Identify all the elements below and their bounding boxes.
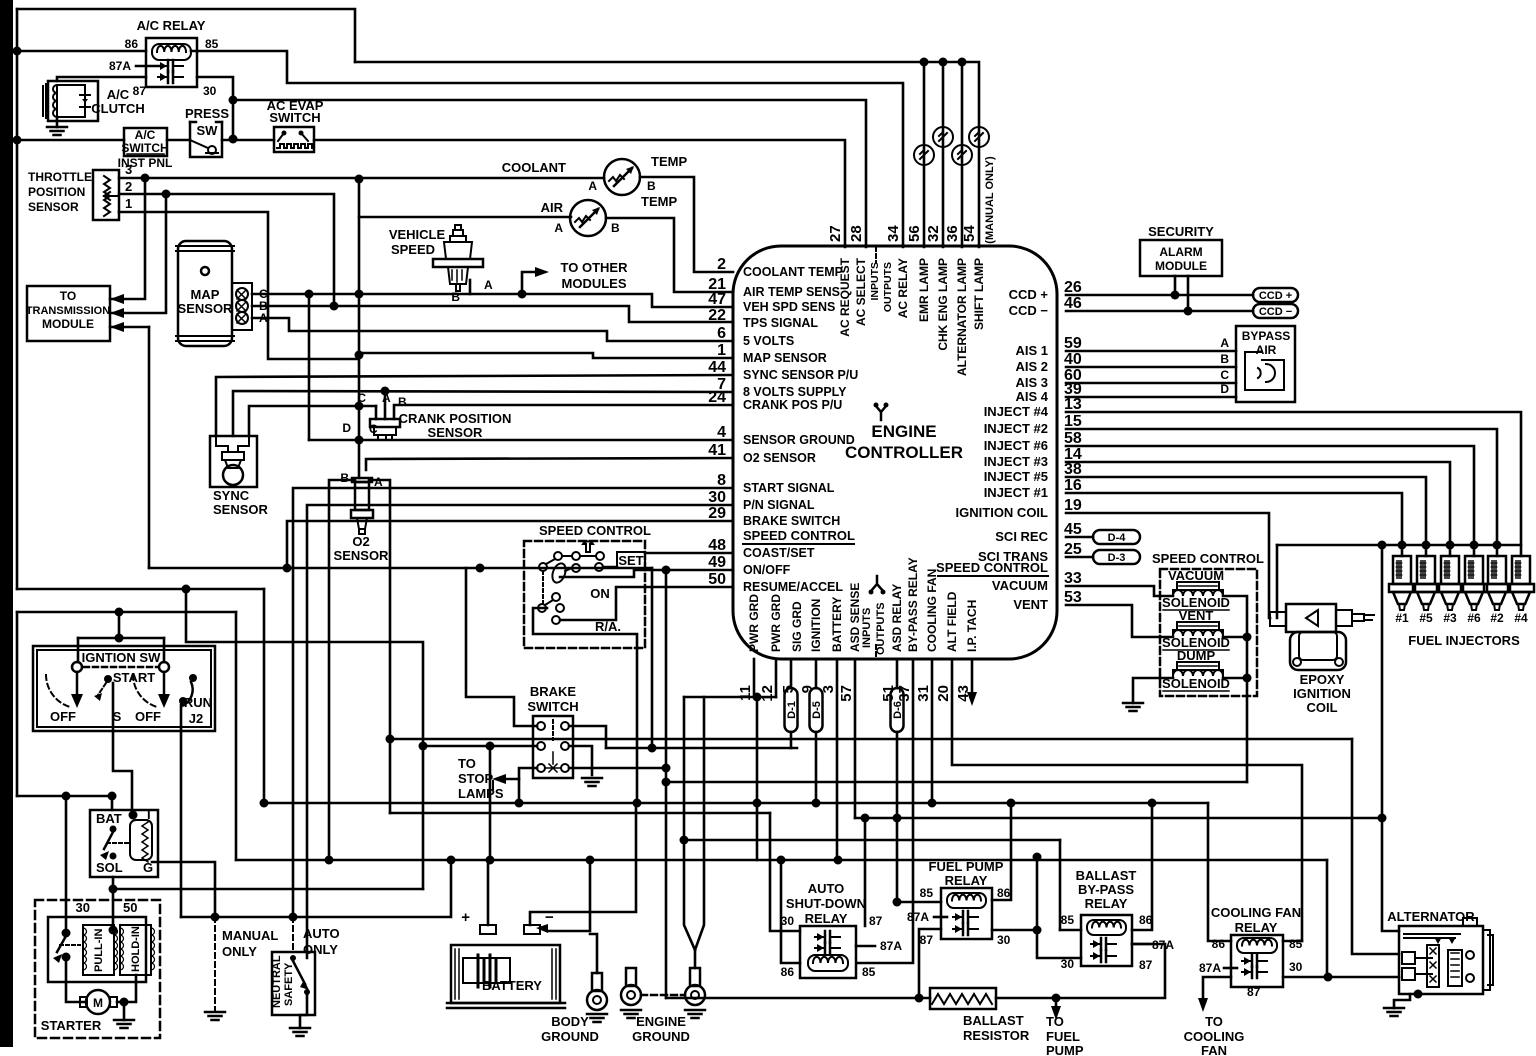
pill D-6 xyxy=(891,688,904,732)
wire o2-b xyxy=(329,480,355,860)
inputs/outputs divider top xyxy=(875,247,877,262)
arrowhead to fuel pump xyxy=(1051,1006,1061,1020)
wire ns-gnd xyxy=(300,995,307,1028)
wire sensor-trunk xyxy=(358,179,361,406)
svg-text:IGNITION COIL: IGNITION COIL xyxy=(956,505,1049,520)
wire pin33-vac xyxy=(1066,586,1173,596)
svg-text:#3: #3 xyxy=(1443,611,1457,625)
AC evap switch xyxy=(274,127,314,152)
wire pin3-wire xyxy=(836,659,839,860)
svg-text:SENSOR: SENSOR xyxy=(28,200,79,214)
svg-text:VACUUM: VACUUM xyxy=(992,578,1048,593)
svg-text:25: 25 xyxy=(1064,541,1082,558)
svg-text:IGNITION: IGNITION xyxy=(809,599,823,652)
svg-text:40: 40 xyxy=(1064,351,1082,368)
node j63 xyxy=(928,799,937,808)
node j16 xyxy=(1243,674,1252,683)
wire pin11 xyxy=(753,659,756,697)
wire rail-889 xyxy=(113,888,423,891)
svg-text:SIG GRD: SIG GRD xyxy=(790,601,804,652)
wire tm-arrow1 xyxy=(110,178,145,299)
wire cfan86-feed xyxy=(1208,803,1231,941)
svg-text:BALLAST: BALLAST xyxy=(1076,868,1137,883)
wire vss-down xyxy=(469,280,472,294)
node j43 xyxy=(1324,973,1333,982)
svg-text:87A: 87A xyxy=(109,59,131,73)
wire wire-32 xyxy=(942,62,945,247)
wire rail-803 xyxy=(264,802,1208,805)
solenoid vent xyxy=(1173,622,1223,636)
node j57 xyxy=(777,856,786,865)
wire vss-pin47 xyxy=(309,294,733,307)
svg-text:ALARM: ALARM xyxy=(1159,245,1202,259)
wire starter-sw-out xyxy=(66,957,86,1002)
arrowhead transmission 299 xyxy=(110,294,124,304)
node j67 xyxy=(305,290,314,299)
svg-text:ALT FIELD: ALT FIELD xyxy=(945,591,959,652)
svg-text:D-5: D-5 xyxy=(811,701,823,719)
svg-text:START SIGNAL: START SIGNAL xyxy=(743,481,835,495)
wire cf-87-wire xyxy=(1203,977,1231,1000)
svg-text:AIR: AIR xyxy=(541,200,564,215)
ground brake switch xyxy=(582,778,602,786)
wire dump-right xyxy=(1223,677,1247,680)
svg-text:+: + xyxy=(461,909,470,926)
node j48 xyxy=(260,799,269,808)
wire clutch-gnd xyxy=(56,117,59,127)
svg-text:RELAY: RELAY xyxy=(945,873,988,888)
wire brake-bl xyxy=(519,768,537,803)
svg-text:GROUND: GROUND xyxy=(632,1029,690,1044)
svg-text:VENT: VENT xyxy=(1013,597,1048,612)
wire o2-a xyxy=(369,480,390,813)
throttle position sensor xyxy=(93,170,119,220)
svg-text:INJECT #6: INJECT #6 xyxy=(984,438,1048,453)
svg-text:START: START xyxy=(113,670,155,685)
svg-text:SPEED: SPEED xyxy=(391,242,435,257)
svg-text:AUTO: AUTO xyxy=(303,926,340,941)
wire batt-minus-b xyxy=(548,860,590,931)
svg-text:D-1: D-1 xyxy=(786,701,798,719)
node j8 xyxy=(330,302,339,311)
svg-text:IGNITION: IGNITION xyxy=(1293,686,1351,701)
svg-text:THROTTLE: THROTTLE xyxy=(28,170,92,184)
wire ign-v1 xyxy=(77,638,80,662)
svg-text:FUEL INJECTORS: FUEL INJECTORS xyxy=(1408,633,1520,648)
wire air-pin21 xyxy=(606,218,733,292)
ballast resistor xyxy=(930,988,996,1009)
node j55 xyxy=(120,998,129,1007)
svg-text:12: 12 xyxy=(759,685,776,702)
wire stop-lamps xyxy=(504,778,519,781)
wire inj-15 xyxy=(1066,429,1497,556)
svg-text:SENSOR: SENSOR xyxy=(213,502,269,517)
wire crank-c xyxy=(375,406,378,419)
fuel injector #5 xyxy=(1413,556,1439,610)
node injbus-1474 xyxy=(1470,541,1479,550)
engine controller U1 xyxy=(733,246,1057,659)
node j70 xyxy=(355,351,364,360)
svg-text:A/C: A/C xyxy=(135,128,156,142)
wire coil-feed xyxy=(1276,545,1279,618)
svg-text:20: 20 xyxy=(935,685,952,702)
wire vent-right xyxy=(1223,636,1247,639)
wire pin45 xyxy=(1066,536,1093,539)
wire batt-minus-a xyxy=(530,803,636,925)
svg-text:MODULE: MODULE xyxy=(42,317,94,331)
svg-text:ENGINE: ENGINE xyxy=(636,1014,686,1029)
svg-text:B: B xyxy=(1220,352,1229,366)
svg-text:SYNC: SYNC xyxy=(213,488,250,503)
arrowhead pin 43 xyxy=(967,692,977,706)
svg-text:PWR GRD: PWR GRD xyxy=(769,594,783,652)
alternator xyxy=(1399,918,1493,994)
svg-text:BY-PASS RELAY: BY-PASS RELAY xyxy=(906,557,920,652)
wire rail-860 xyxy=(236,859,1327,862)
svg-text:CHK ENG LAMP: CHK ENG LAMP xyxy=(936,258,950,351)
wire seg-652 xyxy=(651,568,654,748)
wire ais-39 xyxy=(1066,396,1236,399)
fuel injector #3 xyxy=(1437,556,1463,610)
svg-text:85: 85 xyxy=(1289,937,1303,951)
svg-text:11: 11 xyxy=(737,685,754,701)
wire pin53-vent xyxy=(1066,605,1173,637)
node j42 xyxy=(325,856,334,865)
solenoid dump xyxy=(1173,662,1223,676)
wire brake-tl xyxy=(466,568,537,726)
node j49 xyxy=(109,885,118,894)
svg-text:BATTERY: BATTERY xyxy=(482,978,542,993)
ground dump solenoid xyxy=(1123,703,1143,711)
wire evap-to-27 xyxy=(314,140,845,247)
node injbus-1402 xyxy=(1398,541,1407,550)
crank position sensor xyxy=(370,419,400,439)
wire gnd-starter xyxy=(123,1002,126,1020)
svg-text:CCD +: CCD + xyxy=(1259,290,1292,302)
wire inj-14 xyxy=(1066,462,1450,556)
wire ac-87 xyxy=(57,77,146,81)
node j59 xyxy=(1033,853,1042,862)
svg-text:BAT: BAT xyxy=(96,811,122,826)
svg-text:30: 30 xyxy=(997,933,1011,947)
wire d6-wire xyxy=(896,659,899,688)
A/C switch box xyxy=(124,128,167,156)
svg-text:SHIFT LAMP: SHIFT LAMP xyxy=(972,258,986,330)
wire tm3-down xyxy=(148,327,151,568)
node injbus-1382 xyxy=(1378,541,1387,550)
svg-text:30: 30 xyxy=(203,84,217,98)
node j25 xyxy=(753,693,762,702)
svg-text:D-6: D-6 xyxy=(892,701,904,719)
wire pin57-wire xyxy=(854,659,857,818)
svg-text:28: 28 xyxy=(848,225,865,242)
svg-text:TO: TO xyxy=(1205,1014,1223,1029)
svg-text:AIS 1: AIS 1 xyxy=(1015,343,1048,358)
node j18 xyxy=(476,564,485,573)
svg-text:50: 50 xyxy=(123,900,137,915)
node j17 xyxy=(662,566,671,575)
svg-text:26: 26 xyxy=(1064,279,1082,296)
wire rail-748 xyxy=(606,747,797,750)
svg-text:#2: #2 xyxy=(1490,611,1504,625)
svg-text:SCI REC: SCI REC xyxy=(995,529,1048,544)
wire drop-264 xyxy=(263,589,266,803)
svg-text:OUTPUTS: OUTPUTS xyxy=(875,602,887,655)
wire pin25 xyxy=(1066,556,1093,559)
node j21 xyxy=(283,564,292,573)
svg-text:SOL: SOL xyxy=(96,860,123,875)
svg-text:SWITCH: SWITCH xyxy=(527,699,578,714)
ground neutral safety xyxy=(290,1028,310,1036)
node j65 xyxy=(486,742,495,751)
svg-text:SYNC SENSOR P/U: SYNC SENSOR P/U xyxy=(743,368,858,382)
wire rail-797 xyxy=(17,795,112,798)
ground clutch xyxy=(47,127,67,135)
svg-text:M: M xyxy=(93,996,103,1010)
wire sync-24a xyxy=(249,406,376,436)
wire body-gnd-wire xyxy=(590,934,597,973)
svg-text:A: A xyxy=(484,278,493,292)
wire press-out xyxy=(222,139,274,142)
svg-text:B: B xyxy=(451,290,460,304)
svg-text:RELAY: RELAY xyxy=(1085,896,1128,911)
wire asd-87A-stub xyxy=(856,945,875,948)
svg-text:COIL: COIL xyxy=(1306,700,1337,715)
node j10 xyxy=(381,387,390,396)
svg-text:ALTERNATOR LAMP: ALTERNATOR LAMP xyxy=(955,258,969,376)
svg-text:87: 87 xyxy=(869,914,883,928)
wire bb30-link xyxy=(1037,857,1081,958)
wire brake-ml xyxy=(423,745,537,748)
svg-text:RELAY: RELAY xyxy=(805,911,848,926)
svg-text:8: 8 xyxy=(717,472,726,489)
wire fp-30-wire xyxy=(992,929,1037,932)
fuel injector #4 xyxy=(1508,556,1534,610)
node j4 xyxy=(13,136,22,145)
wire ac-85-to-pin34 xyxy=(191,51,903,247)
svg-text:#6: #6 xyxy=(1467,611,1481,625)
node lamp3 xyxy=(958,58,967,67)
svg-text:33: 33 xyxy=(1064,570,1082,587)
node j31 xyxy=(515,799,524,808)
wire alt-b xyxy=(1352,739,1399,954)
box BYPASS AIR xyxy=(1236,326,1295,402)
svg-text:STOP: STOP xyxy=(458,771,493,786)
node j62 xyxy=(1414,990,1423,999)
wire set-wire xyxy=(603,566,617,569)
svg-text:CLUTCH: CLUTCH xyxy=(91,101,144,116)
wire ccd-minus xyxy=(1066,310,1253,313)
wire tps3-coolant xyxy=(119,177,604,180)
wire air-left xyxy=(359,216,571,219)
wire tm-arrow3 xyxy=(110,326,149,329)
pill D-5 xyxy=(810,688,823,732)
wire brake-mr xyxy=(569,746,592,775)
svg-text:SHUT-DOWN: SHUT-DOWN xyxy=(786,896,866,911)
svg-text:30: 30 xyxy=(708,489,726,506)
svg-text:TRANSMISSION: TRANSMISSION xyxy=(26,305,110,317)
svg-text:#5: #5 xyxy=(1419,611,1433,625)
svg-text:87: 87 xyxy=(1139,958,1153,972)
svg-text:SPEED CONTROL: SPEED CONTROL xyxy=(1152,551,1264,566)
svg-text:AIR: AIR xyxy=(1256,343,1277,357)
svg-text:O2: O2 xyxy=(352,534,369,549)
wire holdin-gnd xyxy=(124,975,136,1002)
wire coolant-pin2 xyxy=(640,177,733,272)
svg-text:86: 86 xyxy=(781,965,795,979)
wire tm-arrow2 xyxy=(110,194,166,313)
wire bb-85-wire xyxy=(1060,929,1081,932)
node j54 xyxy=(62,953,71,962)
wire rail-840 xyxy=(684,839,1060,842)
wire pin19-coil xyxy=(1066,513,1270,618)
svg-text:COOLING FAN: COOLING FAN xyxy=(925,569,939,652)
starter dashed box xyxy=(35,900,160,1038)
arrowhead to other modules xyxy=(535,267,549,277)
wire starter-motor-gnd xyxy=(117,1001,123,1004)
wire ballast-left xyxy=(666,997,930,1000)
svg-text:ENGINE: ENGINE xyxy=(871,422,936,441)
wire sol-drain xyxy=(1223,596,1247,782)
node j28 xyxy=(662,778,671,787)
wire lug-v2 xyxy=(695,697,704,950)
wire lug-stem xyxy=(694,950,697,968)
node j3 xyxy=(229,135,238,144)
svg-text:COAST/SET: COAST/SET xyxy=(743,546,815,560)
svg-text:85: 85 xyxy=(862,965,876,979)
wire d5-down xyxy=(815,732,818,803)
svg-text:OFF: OFF xyxy=(135,709,161,724)
svg-text:I: I xyxy=(147,807,151,822)
svg-text:A: A xyxy=(554,221,563,235)
wire frame-left xyxy=(16,9,19,589)
cooling fan relay xyxy=(1231,935,1283,987)
svg-text:15: 15 xyxy=(1064,413,1082,430)
neutral safety switch xyxy=(272,952,315,1015)
svg-text:FAN: FAN xyxy=(1201,1043,1227,1056)
node j50 xyxy=(115,634,124,643)
svg-text:GROUND: GROUND xyxy=(541,1029,599,1044)
svg-text:CRANK POS P/U: CRANK POS P/U xyxy=(743,398,842,412)
wire sc-common xyxy=(533,608,637,803)
svg-text:MAP: MAP xyxy=(191,287,220,302)
wire asd-86-wire xyxy=(781,860,800,963)
wire pin12 xyxy=(775,659,778,697)
svg-text:VACUUM: VACUUM xyxy=(1168,568,1224,583)
svg-text:INJECT #4: INJECT #4 xyxy=(984,404,1049,419)
node j19 xyxy=(662,764,671,773)
epoxy ignition coil xyxy=(1270,604,1374,670)
node j44 xyxy=(211,913,220,922)
wire inj-16 xyxy=(1066,493,1402,556)
wire bb85-feed xyxy=(1059,840,1062,930)
speed control solenoid dashed box xyxy=(1160,569,1257,696)
wire map-b xyxy=(252,306,733,322)
solenoid vacuum xyxy=(1173,582,1223,596)
wire rail-813 xyxy=(390,812,770,815)
svg-text:56: 56 xyxy=(906,225,923,242)
svg-text:86: 86 xyxy=(125,37,139,51)
node j29 xyxy=(62,792,71,801)
ground starter xyxy=(114,1020,134,1028)
svg-text:BALLAST: BALLAST xyxy=(963,1013,1024,1028)
svg-text:AC RELAY: AC RELAY xyxy=(896,258,910,318)
svg-text:SENSOR: SENSOR xyxy=(178,301,234,316)
wire pwr-down xyxy=(756,697,759,860)
svg-text:C: C xyxy=(369,422,378,436)
svg-text:SENSOR: SENSOR xyxy=(334,548,390,563)
dashed manual only xyxy=(214,917,216,1012)
A/C clutch xyxy=(43,81,98,121)
wire pin8-wire xyxy=(293,488,733,917)
svg-text:AUTO: AUTO xyxy=(808,881,845,896)
wire ac-select xyxy=(233,100,866,247)
wire alt-field-wire xyxy=(1283,976,1399,979)
svg-text:ASD SENSE: ASD SENSE xyxy=(848,583,862,652)
node j34 xyxy=(1148,799,1157,808)
svg-text:RUN: RUN xyxy=(184,695,212,710)
wire ais-59 xyxy=(1066,350,1236,353)
wire cf-85-wire xyxy=(1283,940,1302,943)
svg-text:#1: #1 xyxy=(1395,611,1409,625)
wire set-out xyxy=(645,552,733,555)
wire o2-d xyxy=(358,406,361,478)
O2 sensor xyxy=(351,478,373,534)
svg-text:ONLY: ONLY xyxy=(222,944,257,959)
svg-text:85: 85 xyxy=(1061,913,1075,927)
svg-text:87: 87 xyxy=(920,933,934,947)
svg-text:OUTPUTS: OUTPUTS xyxy=(882,262,894,312)
node j60 xyxy=(915,994,924,1003)
wire ccd-plus xyxy=(1066,294,1253,297)
svg-text:A: A xyxy=(588,179,597,193)
brake switch xyxy=(533,716,573,778)
border bar left xyxy=(0,0,13,1047)
wire cfan30-drop xyxy=(1326,860,1329,977)
svg-text:FUEL: FUEL xyxy=(1046,1029,1080,1044)
wire asd87-feed xyxy=(864,818,867,926)
svg-text:87A: 87A xyxy=(1199,961,1221,975)
svg-text:22: 22 xyxy=(708,307,726,324)
wire fp-87A-stub xyxy=(934,916,947,919)
svg-text:SENSOR: SENSOR xyxy=(428,425,484,440)
wire inj-38 xyxy=(1066,477,1426,556)
svg-text:13: 13 xyxy=(1064,396,1082,413)
svg-text:TEMP: TEMP xyxy=(641,194,677,209)
svg-text:50: 50 xyxy=(708,571,726,588)
svg-text:TPS SIGNAL: TPS SIGNAL xyxy=(743,316,818,330)
svg-text:NEUTRAL: NEUTRAL xyxy=(271,955,283,1008)
svg-text:30: 30 xyxy=(76,900,90,915)
start relay xyxy=(90,810,158,877)
svg-text:BYPASS: BYPASS xyxy=(1242,329,1290,343)
svg-text:I.P. TACH: I.P. TACH xyxy=(965,600,979,652)
arrowhead to stop lamps xyxy=(492,774,506,784)
svg-text:85: 85 xyxy=(920,886,934,900)
node j20 xyxy=(648,744,657,753)
svg-text:AC SELECT: AC SELECT xyxy=(854,257,868,326)
fuel injector #2 xyxy=(1484,556,1510,610)
svg-text:1: 1 xyxy=(717,342,726,359)
svg-text:4: 4 xyxy=(717,424,726,441)
svg-text:85: 85 xyxy=(205,37,219,51)
svg-text:CONTROLLER: CONTROLLER xyxy=(845,443,963,462)
coolant temp gauge xyxy=(604,159,640,195)
svg-text:COOLING: COOLING xyxy=(1184,1029,1245,1044)
svg-text:EPOXY: EPOXY xyxy=(1300,672,1345,687)
svg-text:INJECT #2: INJECT #2 xyxy=(984,421,1048,436)
wire rail-917 xyxy=(181,860,451,917)
